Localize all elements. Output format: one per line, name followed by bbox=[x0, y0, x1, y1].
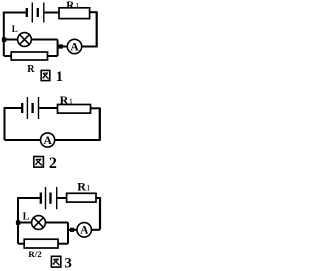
wire battery to R1 (fig2) bbox=[39, 107, 57, 109]
lamp L (fig1) bbox=[18, 33, 32, 47]
wire left vertical (fig3) bbox=[17, 197, 19, 244]
battery long plate 1 (fig3) bbox=[45, 187, 47, 209]
wire ammeter to right (fig1) bbox=[82, 46, 98, 48]
wire top-left (fig1) bbox=[4, 12, 26, 14]
wire lamp to junction (fig3) bbox=[45, 222, 68, 224]
svg-text:1: 1 bbox=[69, 96, 73, 106]
wire right vertical (fig1) bbox=[96, 12, 98, 46]
svg-text:A: A bbox=[80, 225, 89, 237]
svg-text:R: R bbox=[77, 180, 86, 194]
wire lamp row left (fig3) bbox=[18, 222, 32, 224]
wire junction vertical (fig1) bbox=[57, 40, 59, 57]
resistor R1 box (fig1) bbox=[59, 8, 90, 19]
resistor R/2 box (fig3) bbox=[24, 239, 58, 248]
battery short plate 1 (fig3) bbox=[40, 193, 42, 204]
wire ammeter row (fig1) bbox=[58, 46, 68, 48]
wire lamp row left (fig1) bbox=[4, 39, 18, 41]
wire R1 to right corner (fig2) bbox=[91, 107, 101, 109]
ammeter A1 (fig1) bbox=[67, 39, 81, 53]
svg-text:R: R bbox=[60, 93, 69, 107]
svg-text:L: L bbox=[23, 212, 30, 223]
wire top-left (fig2) bbox=[5, 107, 22, 109]
svg-text:1: 1 bbox=[56, 69, 63, 85]
lamp L (fig3) bbox=[32, 216, 46, 230]
battery short plate 1 (fig1) bbox=[26, 8, 28, 17]
wire right vertical (fig3) bbox=[99, 198, 101, 230]
wire battery to R1 (fig1) bbox=[45, 12, 59, 14]
wire bottom left (fig3) bbox=[18, 243, 24, 245]
svg-text:A: A bbox=[44, 135, 53, 147]
wire right vertical (fig2) bbox=[99, 108, 101, 140]
caption fig 1: glyph tu bbox=[41, 70, 50, 80]
node dot left junction (fig3) bbox=[16, 220, 20, 224]
battery B2 (fig2) bbox=[22, 97, 38, 119]
svg-text:1: 1 bbox=[75, 2, 79, 11]
battery short plate 2 (fig2) bbox=[31, 103, 33, 113]
node dot left junction (fig1) bbox=[2, 38, 6, 42]
wire bottom right (fig2) bbox=[55, 139, 101, 141]
wire junction vertical (fig3) bbox=[67, 223, 69, 244]
battery B3 (fig3) bbox=[41, 187, 57, 209]
battery B1 (fig1) bbox=[27, 3, 44, 23]
svg-text:R: R bbox=[66, 0, 75, 11]
wire ammeter row (fig3) bbox=[68, 229, 77, 231]
node dot before ammeter (fig1) bbox=[59, 44, 63, 48]
battery short plate 2 (fig3) bbox=[49, 193, 51, 204]
battery short plate 1 (fig2) bbox=[21, 103, 23, 113]
svg-text:R: R bbox=[27, 64, 35, 75]
wire bottom left (fig2) bbox=[5, 139, 41, 141]
wire left vertical (fig1) bbox=[3, 12, 5, 56]
battery short plate 2 (fig1) bbox=[37, 8, 39, 17]
battery long plate 2 (fig1) bbox=[43, 3, 45, 23]
svg-text:R/2: R/2 bbox=[28, 249, 42, 259]
svg-text:1: 1 bbox=[86, 183, 90, 193]
wire ammeter to right (fig3) bbox=[91, 229, 100, 231]
caption fig 3: glyph tu bbox=[51, 256, 60, 267]
resistor R1 box (fig2) bbox=[58, 105, 91, 114]
svg-text:3: 3 bbox=[64, 255, 72, 271]
wire R1 to right corner (fig3) bbox=[96, 197, 101, 199]
wire R box to junction (fig1) bbox=[48, 55, 58, 57]
wire R1 to right corner (fig1) bbox=[90, 11, 98, 13]
wire battery to R1 (fig3) bbox=[57, 197, 66, 199]
svg-text:2: 2 bbox=[49, 155, 57, 172]
battery long plate 1 (fig2) bbox=[26, 97, 28, 119]
svg-text:A: A bbox=[70, 41, 79, 53]
ammeter A (fig3) bbox=[77, 223, 92, 238]
svg-text:L: L bbox=[12, 24, 18, 34]
wire top-left (fig3) bbox=[18, 197, 40, 199]
ammeter A (fig2) bbox=[41, 133, 55, 147]
wire R/2 box to junction (fig3) bbox=[58, 243, 68, 245]
battery long plate 2 (fig2) bbox=[38, 97, 40, 119]
resistor R1 box (fig3) bbox=[67, 193, 96, 202]
wire bottom left (fig1) bbox=[4, 55, 11, 57]
battery long plate 2 (fig3) bbox=[56, 187, 58, 209]
caption fig 2: glyph tu bbox=[34, 157, 44, 168]
node dot before ammeter (fig3) bbox=[70, 228, 74, 232]
battery long plate 1 (fig1) bbox=[31, 3, 33, 23]
wire left vertical (fig2) bbox=[4, 107, 6, 140]
resistor R box (fig1) bbox=[11, 52, 47, 60]
wire lamp to junction (fig1) bbox=[31, 39, 57, 41]
